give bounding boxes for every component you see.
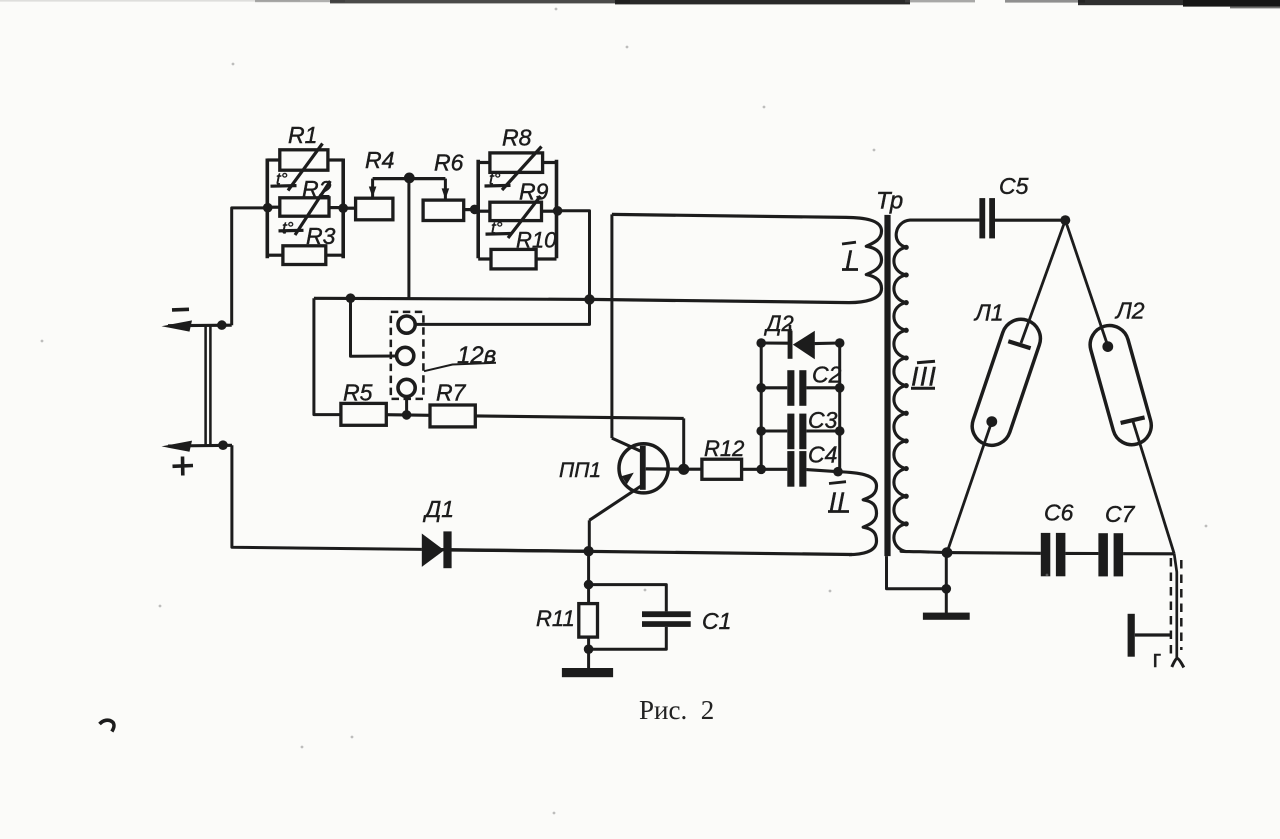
svg-text:t°: t° <box>282 219 294 238</box>
svg-text:R9: R9 <box>519 179 549 205</box>
svg-text:Д1: Д1 <box>422 496 454 522</box>
svg-text:R2: R2 <box>302 176 332 202</box>
svg-text:C6: C6 <box>1044 500 1074 526</box>
svg-text:t°: t° <box>276 170 288 189</box>
svg-text:12в: 12в <box>457 342 496 369</box>
svg-text:R8: R8 <box>502 125 532 151</box>
svg-text:R7: R7 <box>436 380 467 406</box>
svg-text:Тр: Тр <box>876 188 903 215</box>
svg-text:R11: R11 <box>536 606 575 631</box>
svg-text:C4: C4 <box>808 442 837 468</box>
svg-text:C5: C5 <box>999 173 1029 199</box>
svg-text:Д2: Д2 <box>763 311 794 336</box>
svg-text:г: г <box>1153 646 1162 673</box>
svg-text:C2: C2 <box>812 362 842 388</box>
svg-text:R5: R5 <box>343 380 373 406</box>
svg-text:t°: t° <box>491 219 503 238</box>
svg-text:C7: C7 <box>1105 501 1136 527</box>
svg-text:R4: R4 <box>365 147 394 173</box>
svg-text:Л2: Л2 <box>1114 298 1145 324</box>
svg-text:R1: R1 <box>288 122 317 148</box>
svg-text:R12: R12 <box>704 436 744 461</box>
svg-text:t°: t° <box>489 170 501 189</box>
svg-text:C1: C1 <box>702 608 731 634</box>
svg-text:R3: R3 <box>306 223 336 249</box>
svg-text:C3: C3 <box>808 407 838 433</box>
svg-text:Л1: Л1 <box>973 300 1004 326</box>
svg-text:R10: R10 <box>516 228 557 253</box>
svg-text:Рис. 2: Рис. 2 <box>639 695 714 725</box>
svg-text:R6: R6 <box>434 150 464 176</box>
svg-text:ПП1: ПП1 <box>559 459 601 482</box>
